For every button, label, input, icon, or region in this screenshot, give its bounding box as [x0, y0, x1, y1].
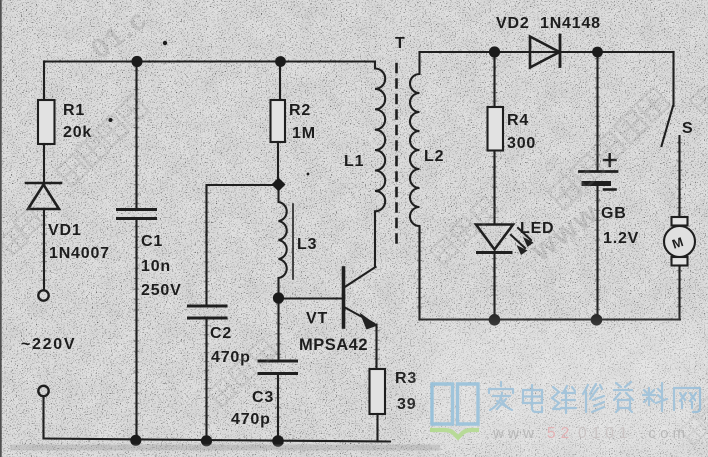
svg-text:470p: 470p [231, 411, 271, 428]
scan tick texture on long wires [44, 58, 680, 436]
LED [476, 225, 534, 256]
char 修 [583, 384, 604, 412]
svg-text:MPSA42: MPSA42 [299, 336, 368, 354]
char 电 [523, 385, 542, 412]
terminal upper ~220V [38, 290, 48, 300]
wire R4 to LED [493, 151, 495, 225]
wire GB lower [596, 186, 598, 320]
junction R2 / L3 / C2 node [272, 178, 286, 192]
char 资 [614, 382, 633, 412]
svg-text:R1: R1 [63, 102, 85, 119]
wire bottom-right rail [420, 318, 681, 320]
battery GB [580, 154, 618, 189]
char 维 [552, 386, 576, 413]
junction top-right rail / R4 (VD2 anode) [489, 46, 500, 57]
wire left drop to R1 [43, 62, 45, 101]
char 网 [674, 388, 700, 412]
svg-text:1N4148: 1N4148 [540, 15, 601, 32]
wire C1 branch upper [135, 62, 137, 210]
junction top-right rail / GB (VD2 cathode) [592, 47, 603, 58]
char 家 [489, 382, 513, 410]
junction bottom rail / C1 [130, 435, 141, 446]
resistor R1 [38, 100, 55, 144]
svg-text:C3: C3 [252, 389, 274, 406]
logo url text [492, 425, 689, 442]
capacitor C1 [118, 210, 156, 219]
diode VD2 [530, 35, 560, 68]
wire lower terminal to bottom rail [44, 397, 45, 439]
junction bottom rail / C3 [272, 435, 284, 447]
junction L3 / C3 / VT base node [273, 292, 284, 303]
wire R4 drop [493, 52, 495, 107]
left scan edge line [0, 0, 2, 457]
wire C2 lower [205, 318, 207, 441]
transformer core dashes [395, 64, 398, 244]
junction top rail / R2 branch [275, 56, 286, 67]
switch blade [662, 106, 674, 146]
inductor L1 primary [375, 62, 385, 268]
wire C1 branch lower [135, 219, 137, 441]
motor M [664, 217, 695, 266]
svg-text:1M: 1M [292, 125, 316, 142]
svg-text:300: 300 [507, 135, 536, 152]
terminal lower ~220V [38, 386, 48, 396]
wire top-left horizontal [44, 60, 375, 62]
svg-text:39: 39 [397, 396, 416, 413]
resistor R2 [271, 100, 286, 142]
resistor R3 [370, 369, 386, 414]
inductor L3 [279, 185, 287, 297]
svg-text:~220V: ~220V [21, 336, 76, 353]
wire switch to motor [678, 136, 680, 217]
wire R3 lower [376, 414, 378, 442]
svg-text:L3: L3 [297, 236, 317, 253]
inductor L2 secondary [410, 52, 420, 320]
wire R1 to VD1 [43, 144, 45, 183]
svg-text:R4: R4 [507, 112, 529, 129]
svg-text:GB: GB [601, 205, 627, 222]
svg-text:1N4007: 1N4007 [49, 245, 110, 262]
watermark logo: green swoosh [430, 430, 479, 438]
junction bottom-right rail / GB [591, 314, 603, 326]
junction bottom rail / C2 [201, 435, 212, 446]
resistor R4 [488, 107, 504, 151]
svg-text:1.2V: 1.2V [603, 230, 639, 247]
logo chinese characters 家电维修资料网 (hand-drawn strokes) [489, 382, 700, 413]
svg-text:VD2: VD2 [496, 15, 530, 32]
light corner wash bottom-right [420, 325, 708, 457]
svg-text:C1: C1 [141, 233, 163, 250]
capacitor C2 [189, 306, 227, 318]
junction top rail / C1 branch [131, 56, 142, 67]
wire node to C3 [277, 297, 279, 361]
wire R2 drop [279, 62, 281, 101]
svg-text:L1: L1 [344, 153, 364, 170]
wire C3 lower [277, 374, 279, 442]
svg-text:VT: VT [306, 310, 328, 327]
diode VD1 [26, 183, 61, 209]
transistor VT [344, 267, 378, 330]
svg-text:C2: C2 [210, 325, 232, 342]
svg-text:10n: 10n [141, 258, 171, 275]
wire motor lower [678, 266, 680, 320]
wire R2 to node [277, 142, 279, 185]
wire LED lower [493, 253, 495, 320]
svg-text:R3: R3 [395, 370, 417, 387]
wire bottom rail [44, 439, 391, 442]
wire emitter to R3 [375, 325, 377, 370]
wire top-right rail [420, 51, 674, 53]
svg-text:250V: 250V [141, 282, 182, 299]
svg-text:470p: 470p [211, 349, 251, 366]
svg-text:S: S [682, 120, 693, 137]
wire GB drop [596, 52, 598, 172]
watermark logo: book icon [432, 384, 478, 424]
L3 core bar [292, 204, 294, 279]
svg-text:T: T [395, 35, 406, 52]
bottom scan smudge [10, 445, 440, 451]
svg-text:L2: L2 [424, 148, 444, 165]
svg-text:VD1: VD1 [48, 222, 82, 239]
stray scan specks [109, 41, 310, 176]
char 料 [643, 383, 667, 411]
wire right rail + switch S [672, 52, 674, 106]
svg-text:R2: R2 [289, 102, 311, 119]
junction bottom-right rail / LED [489, 314, 501, 326]
capacitor C3 [259, 361, 297, 374]
wire base of VT [279, 297, 344, 299]
wire VD1 to terminal [43, 209, 45, 290]
wire node to C2 horizontal [207, 185, 279, 306]
